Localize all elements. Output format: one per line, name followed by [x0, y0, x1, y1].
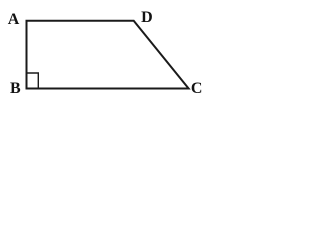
vertex label D	[141, 10, 153, 26]
right angle marker at vertex B	[27, 73, 39, 89]
vertex label A	[8, 12, 20, 28]
vertex label C	[191, 81, 203, 97]
vertex label B	[10, 81, 21, 97]
trapezoid ABCD outline (sides AD top, DC slant, CB bottom, BA left)	[27, 21, 189, 89]
